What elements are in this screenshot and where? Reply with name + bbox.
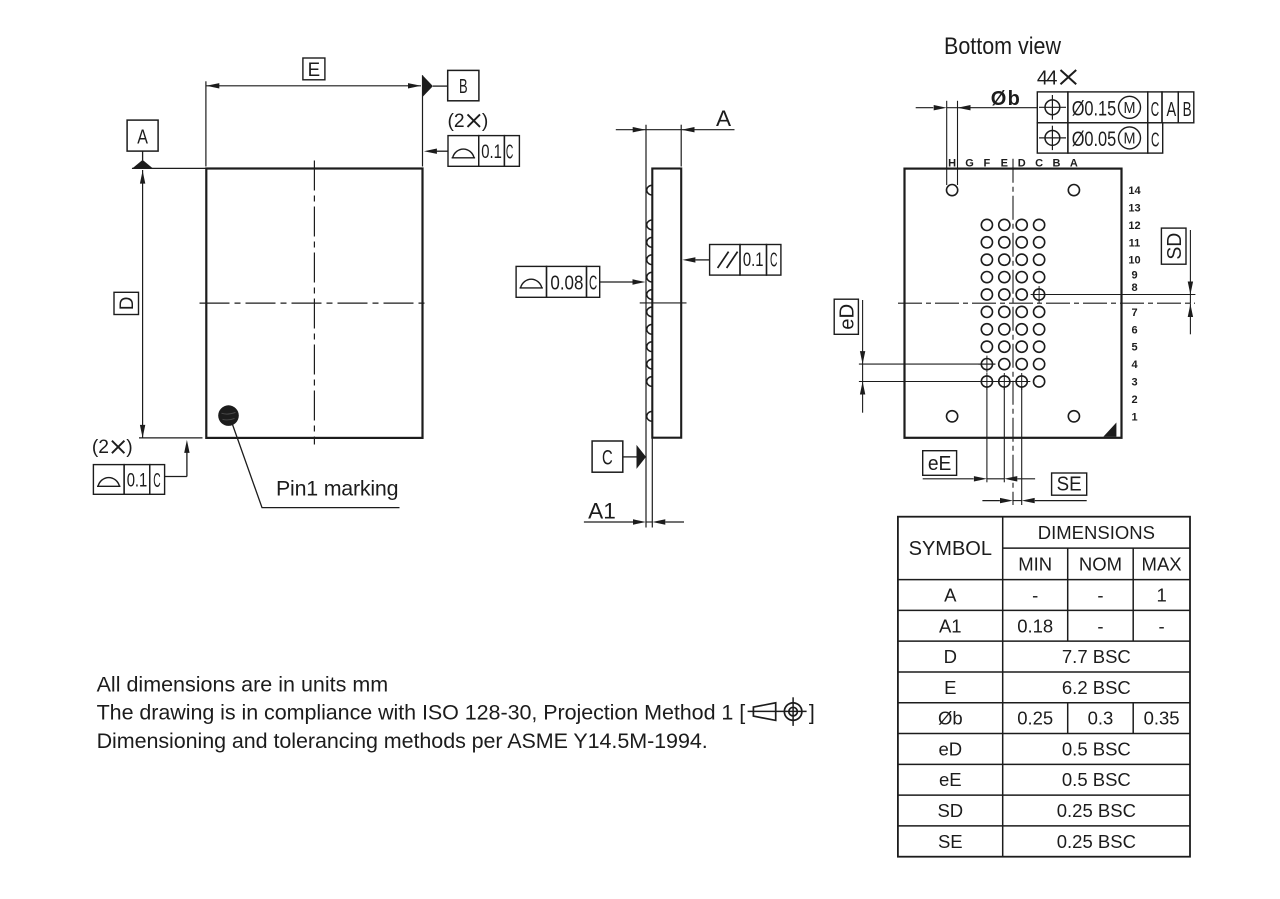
dimension SE [982,388,1086,505]
bottom view horizontal centerline [898,302,1195,304]
svg-text:C: C [770,249,777,271]
svg-text:Øb: Øb [991,88,1020,110]
dimension A1 [584,438,684,528]
svg-text:C: C [153,470,160,492]
svg-text:C: C [589,272,597,294]
fcf profile 0.1 C lower [92,437,190,494]
svg-text:D: D [1018,157,1026,169]
svg-text:Ø0.15: Ø0.15 [1072,97,1117,121]
label SE [1052,473,1087,496]
label A1 [588,498,616,523]
svg-text:A: A [716,106,732,131]
svg-text:DIMENSIONS: DIMENSIONS [1038,522,1155,543]
label eE [923,451,957,476]
svg-text:(2: (2 [448,111,465,132]
svg-text:0.3: 0.3 [1088,708,1114,729]
label 44X [1037,67,1076,89]
svg-text:SD: SD [937,800,963,821]
column labels H-A [948,157,1078,169]
row labels 1-14 [1128,185,1141,423]
svg-text:0.1: 0.1 [481,142,502,163]
svg-text:0.1: 0.1 [743,250,764,271]
svg-text:): ) [126,437,132,458]
crosshair reference balls [978,286,1047,390]
fcf position 0.15 M C A B [1037,92,1194,123]
svg-text:C: C [506,142,513,164]
front view horizontal centerline [200,302,429,304]
dimension A [616,125,735,167]
svg-text:0.25: 0.25 [1017,708,1053,729]
pin1 marking dot [218,405,239,426]
svg-text:14: 14 [1128,185,1141,197]
svg-text:0.25 BSC: 0.25 BSC [1057,800,1136,821]
svg-text:3: 3 [1131,377,1137,389]
svg-text:eD: eD [938,738,962,759]
label A dim [716,106,732,131]
svg-text:G: G [965,157,974,169]
dimension D [139,170,203,438]
svg-text:A: A [137,126,148,149]
svg-text:A: A [1166,98,1176,121]
pin1 label [276,477,399,501]
svg-text:B: B [459,76,468,98]
svg-text:Ø0.05: Ø0.05 [1072,127,1117,151]
svg-text:0.25 BSC: 0.25 BSC [1057,831,1136,852]
svg-text:eE: eE [939,769,962,790]
label Ob [991,88,1020,110]
svg-text:SYMBOL: SYMBOL [909,538,992,560]
svg-text:C: C [1151,98,1160,121]
svg-text:1: 1 [1131,411,1137,423]
dimension eE [923,388,1035,483]
svg-text:D: D [944,646,957,667]
svg-text:44: 44 [1037,67,1058,89]
svg-text:eD: eD [837,304,859,330]
datum B [423,70,479,100]
svg-text:0.35: 0.35 [1144,708,1180,729]
svg-text:MAX: MAX [1142,553,1182,574]
svg-text:SE: SE [1057,474,1082,496]
front view package body [206,169,422,438]
svg-text:SD: SD [1164,233,1186,260]
svg-text:A: A [944,584,957,605]
projection symbol [748,697,815,726]
svg-text:eE: eE [928,453,952,475]
svg-text:-: - [1097,615,1103,636]
svg-text:A1: A1 [588,498,616,523]
svg-text:9: 9 [1131,270,1137,282]
side view horizontal centerline [640,302,687,304]
seating plane line [645,125,647,528]
svg-text:(2: (2 [92,437,109,458]
fcf profile 0.08 C [516,266,645,297]
svg-text:MIN: MIN [1018,553,1052,574]
svg-text:7.7 BSC: 7.7 BSC [1062,646,1131,667]
svg-text:11: 11 [1129,237,1141,249]
svg-text:2: 2 [1131,394,1137,406]
svg-text:E: E [308,60,321,81]
svg-text:0.5 BSC: 0.5 BSC [1062,738,1131,759]
fcf position 0.05 M C [1037,123,1162,153]
svg-text:13: 13 [1128,203,1140,215]
svg-text:M: M [1124,131,1136,148]
svg-text:A1: A1 [939,615,962,636]
svg-text:B: B [1183,98,1192,121]
svg-text:1: 1 [1156,584,1166,605]
svg-text:6.2 BSC: 6.2 BSC [1062,677,1131,698]
svg-text:B: B [1053,157,1061,169]
svg-text:-: - [1032,584,1038,605]
datum C [592,441,646,472]
svg-text:-: - [1159,615,1165,636]
fcf parallelism 0.1 C [682,245,781,276]
svg-text:Bottom view: Bottom view [944,33,1062,60]
svg-text:7: 7 [1131,307,1137,319]
svg-text:6: 6 [1131,324,1137,336]
svg-text:F: F [984,157,991,169]
dimension E [206,75,423,166]
svg-text:C: C [1035,157,1043,169]
dimension Ob [916,101,1038,185]
svg-text:All dimensions are in units mm: All dimensions are in units mm [97,673,389,697]
title Bottom view [944,33,1062,60]
svg-text:NOM: NOM [1079,553,1122,574]
note line 1 [97,673,389,697]
svg-text:E: E [1001,157,1008,169]
label eD [834,299,858,334]
svg-text:0.08: 0.08 [550,272,583,294]
fcf profile 0.1 C upper [424,111,520,166]
label D [114,292,139,314]
front view vertical centerline [313,161,315,445]
svg-text:C: C [1151,128,1160,151]
bottom view outline [905,169,1122,438]
side view body [652,169,681,438]
svg-text:-: - [1097,584,1103,605]
svg-text:10: 10 [1128,255,1140,267]
svg-text:12: 12 [1128,220,1140,232]
side view solder balls [647,185,653,421]
svg-text:0.5 BSC: 0.5 BSC [1062,769,1131,790]
svg-text:Dimensioning and tolerancing m: Dimensioning and tolerancing methods per… [97,729,708,753]
svg-text:C: C [602,445,613,469]
bottom view vertical centerline [1012,159,1014,505]
svg-text:M: M [1124,100,1136,117]
note line 3 [97,729,708,753]
dimensions table [898,517,1190,857]
dimension eD [859,300,1030,413]
dimension SD [1045,230,1195,334]
pin1 corner chamfer [1103,423,1116,437]
svg-text:0.18: 0.18 [1017,615,1053,636]
svg-text:Øb: Øb [938,708,963,729]
ball grid 44 balls [947,185,1080,422]
svg-text:A: A [1070,157,1078,169]
svg-text:H: H [948,157,956,169]
svg-text:8: 8 [1131,282,1137,294]
svg-text:4: 4 [1131,359,1138,371]
svg-text:The drawing is in compliance w: The drawing is in compliance with ISO 12… [97,700,746,724]
label E [303,58,325,81]
pin1 leader [233,425,400,508]
svg-text:]: ] [809,700,815,724]
label SD [1161,228,1186,264]
svg-text:D: D [117,297,138,311]
svg-text:E: E [944,677,956,698]
datum A [127,120,206,169]
svg-text:0.1: 0.1 [127,471,148,492]
svg-text:Pin1 marking: Pin1 marking [276,477,399,501]
svg-text:5: 5 [1131,342,1137,354]
svg-text:SE: SE [938,831,963,852]
note line 2 [97,700,746,724]
svg-text:): ) [482,111,488,132]
